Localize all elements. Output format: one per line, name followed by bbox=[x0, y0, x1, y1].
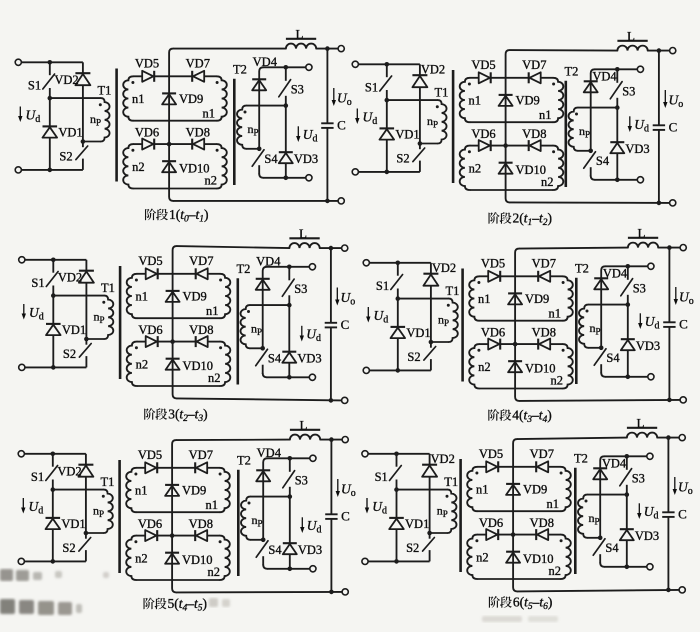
caption stage 1 (t0-t1) bbox=[145, 207, 208, 225]
switch S1 (circuit 3) bbox=[46, 260, 58, 296]
wire VD2 to node (circuit 4) bbox=[430, 286, 432, 342]
wire bottom rail (circuit 1) bbox=[173, 200, 338, 202]
wire VD2 to node (circuit 1) bbox=[82, 85, 84, 141]
label T1 (circuit 4) bbox=[446, 284, 460, 298]
label VD1 (circuit 6) bbox=[405, 517, 429, 531]
wire VD2 to node (circuit 3) bbox=[85, 283, 87, 339]
wire bottom input (circuit 2) bbox=[358, 171, 420, 173]
label nP T1 (circuit 2) bbox=[427, 114, 438, 130]
svg-text:S3: S3 bbox=[294, 282, 307, 296]
node S3 bottom junction (circuit 5) bbox=[288, 494, 293, 499]
wire n1 top-right (circuit 6) bbox=[548, 466, 560, 468]
svg-text:n1: n1 bbox=[546, 497, 559, 511]
diode VD5 (circuit 2) bbox=[479, 72, 491, 83]
wire VD3 branch upper (circuit 3) bbox=[288, 305, 290, 352]
svg-text:VD7: VD7 bbox=[189, 448, 213, 462]
input terminal + (circuit 4) bbox=[363, 260, 369, 266]
label VD2 (circuit 5) bbox=[57, 465, 81, 479]
svg-text:5(: 5( bbox=[168, 596, 180, 611]
label n1 right (circuit 3) bbox=[206, 304, 219, 318]
label Ud input (circuit 4) bbox=[374, 308, 389, 326]
wire C branch lower (circuit 6) bbox=[667, 517, 669, 590]
diode VD2 (circuit 1) bbox=[75, 73, 90, 85]
diode VD5 (circuit 3) bbox=[146, 268, 158, 279]
label VD6 (circuit 2) bbox=[471, 127, 495, 141]
node bottom-left junction (circuit 4) bbox=[396, 368, 401, 373]
label VD2 (circuit 3) bbox=[58, 271, 82, 285]
label VD9 (circuit 4) bbox=[525, 292, 549, 306]
node S4 top junction (circuit 3) bbox=[260, 346, 265, 351]
inductor L (circuit 1) bbox=[286, 39, 316, 49]
label S4 (circuit 1) bbox=[264, 152, 278, 166]
wire C branch lower (circuit 4) bbox=[668, 327, 670, 400]
label VD2 (circuit 1) bbox=[54, 73, 78, 87]
label VD8 (circuit 2) bbox=[522, 127, 546, 141]
svg-text:T1: T1 bbox=[101, 475, 115, 489]
terminal S3 top (circuit 2) bbox=[637, 66, 643, 72]
node top-left junction (circuit 4) bbox=[396, 261, 401, 266]
wire n2 top-mid (circuit 5) bbox=[157, 535, 195, 537]
svg-text:S3: S3 bbox=[622, 85, 635, 99]
label Ud input (circuit 6) bbox=[372, 499, 387, 517]
wire S3 top (circuit 5) bbox=[267, 457, 310, 459]
svg-text:n1: n1 bbox=[539, 108, 552, 122]
wire n1 bottom (circuit 4) bbox=[479, 320, 562, 322]
label n1 right (circuit 1) bbox=[202, 107, 215, 121]
node S3 top junction (circuit 3) bbox=[287, 265, 292, 270]
node C bottom junction (circuit 6) bbox=[666, 588, 671, 593]
caption stage 4 (t3-t4) bbox=[488, 408, 551, 426]
svg-text:VD4: VD4 bbox=[603, 267, 628, 281]
winding nP of T1 (circuit 3) bbox=[86, 296, 113, 339]
diode VD3 (circuit 1) bbox=[279, 152, 293, 163]
wire left bus mid (circuit 4) bbox=[397, 299, 399, 327]
label T2 (circuit 2) bbox=[565, 65, 579, 79]
input terminal + (circuit 1) bbox=[15, 59, 21, 65]
svg-text:VD7: VD7 bbox=[530, 447, 554, 461]
polarity dot n1 left (circuit 3) bbox=[135, 279, 138, 282]
node C top junction (circuit 1) bbox=[325, 46, 330, 51]
svg-text:S3: S3 bbox=[291, 83, 304, 97]
wire nP top (circuit 2) bbox=[578, 107, 618, 109]
wire n1 top-left (circuit 5) bbox=[136, 467, 145, 469]
wire left bus lower (circuit 6) bbox=[396, 529, 398, 561]
diode VD9 (circuit 4) bbox=[508, 293, 522, 304]
label S3 (circuit 2) bbox=[622, 85, 635, 99]
terminal S4 bottom (circuit 2) bbox=[637, 177, 643, 183]
svg-text:n1: n1 bbox=[205, 498, 218, 512]
terminal S4 bottom (circuit 1) bbox=[306, 175, 312, 181]
polarity dot n1 left (circuit 4) bbox=[477, 281, 480, 284]
wire bottom input (circuit 6) bbox=[368, 560, 430, 562]
wire n2 top-mid (circuit 3) bbox=[158, 341, 196, 343]
wire bottom rail (circuit 6) bbox=[517, 590, 679, 592]
svg-text:2(: 2( bbox=[513, 211, 525, 226]
label VD8 (circuit 3) bbox=[189, 323, 213, 337]
label VD10 (circuit 5) bbox=[182, 553, 213, 567]
winding n2 right (T2 primary) (circuit 5) bbox=[220, 536, 230, 580]
output terminal − (circuit 5) bbox=[342, 589, 348, 595]
wire VD4 branch (circuit 6) bbox=[600, 456, 604, 538]
node S3 bottom junction (circuit 1) bbox=[284, 103, 289, 108]
label VD2 (circuit 4) bbox=[432, 261, 456, 275]
caption stage 5 (t4-t5) bbox=[143, 596, 206, 614]
wire left bus lower (circuit 2) bbox=[386, 140, 388, 172]
label L (circuit 1) bbox=[296, 26, 304, 41]
wire VD2 to node (circuit 5) bbox=[85, 477, 87, 533]
wire n1 top-right (circuit 5) bbox=[207, 467, 219, 469]
svg-text:T2: T2 bbox=[574, 452, 588, 466]
label VD4 (circuit 5) bbox=[257, 446, 282, 460]
label L (circuit 5) bbox=[300, 417, 308, 432]
label VD5 (circuit 3) bbox=[138, 254, 162, 268]
label S1 (circuit 2) bbox=[365, 81, 378, 95]
polarity dot n1 right (circuit 4) bbox=[562, 281, 565, 284]
label VD3 (circuit 5) bbox=[298, 543, 322, 557]
label S1 (circuit 1) bbox=[28, 79, 41, 93]
svg-text:T2: T2 bbox=[565, 65, 579, 79]
svg-text:n2: n2 bbox=[476, 551, 489, 565]
svg-text:T2: T2 bbox=[233, 63, 247, 77]
svg-text:C: C bbox=[669, 119, 678, 134]
transformer T2 core (circuit 6) bbox=[574, 468, 577, 574]
wire VD3 branch upper (circuit 1) bbox=[285, 106, 287, 153]
svg-text:n1: n1 bbox=[132, 92, 145, 106]
label VD7 (circuit 3) bbox=[189, 254, 213, 268]
arrow Ud output (circuit 6) bbox=[637, 503, 641, 519]
svg-text:n2: n2 bbox=[208, 371, 221, 385]
transformer T2 core (circuit 4) bbox=[575, 278, 578, 384]
svg-text:VD2: VD2 bbox=[431, 452, 455, 466]
wire to T1 primary (circuit 1) bbox=[50, 97, 101, 99]
node S3 bottom junction (circuit 6) bbox=[625, 492, 630, 497]
node C top junction (circuit 4) bbox=[667, 245, 672, 250]
terminal S4 bottom (circuit 5) bbox=[310, 566, 316, 572]
arrow Uo (circuit 4) bbox=[674, 287, 678, 305]
label S4 (circuit 6) bbox=[605, 541, 619, 555]
label S2 (circuit 5) bbox=[62, 541, 75, 555]
wire bottom rail (circuit 4) bbox=[519, 400, 680, 401]
switch S3 (circuit 6) bbox=[620, 456, 632, 494]
label n2 left (circuit 6) bbox=[476, 551, 489, 565]
polarity dot nP T1 (circuit 5) bbox=[102, 495, 105, 498]
node C top junction (circuit 3) bbox=[329, 246, 334, 251]
wire left bus lower (circuit 5) bbox=[52, 529, 54, 561]
svg-text:n1: n1 bbox=[135, 484, 148, 498]
diode VD3 (circuit 5) bbox=[283, 543, 297, 554]
node bottom-left junction (circuit 2) bbox=[385, 170, 390, 175]
winding nP of T2 (circuit 2) bbox=[569, 108, 591, 151]
svg-text:C: C bbox=[337, 117, 346, 132]
label VD10 (circuit 6) bbox=[523, 552, 554, 566]
polarity dot n2 right (circuit 6) bbox=[560, 539, 563, 542]
node VD6-VD8 junction (circuit 5) bbox=[170, 533, 175, 538]
wire centre vertical (circuit 5) bbox=[172, 440, 176, 592]
svg-text:VD5: VD5 bbox=[471, 58, 495, 72]
node top-left junction (circuit 6) bbox=[394, 452, 399, 457]
diode VD5 (circuit 5) bbox=[145, 462, 157, 473]
label nP T2 (circuit 2) bbox=[579, 124, 590, 140]
switch S3 (circuit 5) bbox=[283, 458, 295, 496]
svg-text:n2: n2 bbox=[551, 374, 564, 388]
svg-text:n1: n1 bbox=[548, 307, 561, 321]
label Ud output (circuit 5) bbox=[307, 518, 322, 536]
label Uo (circuit 1) bbox=[337, 91, 352, 109]
wire VD4 branch (circuit 3) bbox=[263, 267, 267, 349]
output terminal − (circuit 3) bbox=[342, 397, 348, 403]
wire n1 bottom (circuit 5) bbox=[136, 511, 219, 513]
wire top input (circuit 4) bbox=[369, 262, 431, 264]
svg-text:VD1: VD1 bbox=[395, 127, 419, 141]
svg-text:T1: T1 bbox=[446, 284, 460, 298]
svg-text:n1: n1 bbox=[135, 290, 148, 304]
input terminal − (circuit 5) bbox=[18, 558, 24, 564]
transformer T2 core (circuit 1) bbox=[233, 79, 236, 185]
label S3 (circuit 3) bbox=[294, 282, 307, 296]
wire n2 bottom (circuit 6) bbox=[477, 578, 560, 580]
wire VD2 stub (circuit 6) bbox=[429, 454, 431, 465]
svg-text:n2: n2 bbox=[549, 564, 562, 578]
wire n1 top-mid (circuit 2) bbox=[491, 77, 529, 79]
svg-text:n2: n2 bbox=[469, 162, 482, 176]
wire VD3 branch upper (circuit 5) bbox=[289, 497, 291, 544]
svg-text:VD6: VD6 bbox=[471, 127, 495, 141]
wire n1 top-right (circuit 2) bbox=[541, 77, 553, 79]
label VD7 (circuit 4) bbox=[532, 257, 556, 271]
svg-text:L: L bbox=[637, 415, 645, 430]
label n1 left (circuit 3) bbox=[135, 290, 148, 304]
wire n2 top-mid (circuit 6) bbox=[498, 534, 536, 536]
label nP T1 (circuit 6) bbox=[437, 504, 448, 520]
winding nP of T2 (circuit 3) bbox=[240, 305, 262, 348]
input terminal − (circuit 4) bbox=[363, 367, 369, 373]
svg-text:S4: S4 bbox=[605, 541, 619, 555]
wire n2 top-right (circuit 1) bbox=[204, 143, 216, 145]
switch S2 (circuit 2) bbox=[413, 144, 425, 172]
switch S2 (circuit 1) bbox=[76, 142, 88, 170]
arrow Ud output (circuit 2) bbox=[628, 116, 632, 132]
switch S2 (circuit 6) bbox=[423, 533, 435, 561]
node mid-left junction (circuit 1) bbox=[48, 96, 53, 101]
node top-left junction (circuit 1) bbox=[48, 60, 53, 65]
label Uo (circuit 6) bbox=[678, 480, 693, 498]
winding n1 left (T1 secondary) (circuit 5) bbox=[126, 468, 136, 512]
capacitor C (circuit 1) bbox=[321, 123, 333, 128]
wire nP top (circuit 4) bbox=[588, 304, 628, 306]
svg-text:VD9: VD9 bbox=[523, 483, 547, 497]
wire VD3 branch lower (circuit 4) bbox=[627, 350, 629, 376]
diode VD7 (circuit 4) bbox=[538, 271, 550, 282]
node top-left junction (circuit 3) bbox=[51, 258, 56, 263]
polarity dot nP T2 (circuit 5) bbox=[248, 502, 251, 505]
svg-text:VD4: VD4 bbox=[592, 70, 617, 84]
svg-text:S4: S4 bbox=[596, 154, 610, 168]
node nP-bottom junction (circuit 5) bbox=[84, 531, 89, 536]
label nP T1 (circuit 4) bbox=[438, 313, 449, 329]
node bottom-right junction (circuit 2) bbox=[615, 178, 620, 183]
label S3 (circuit 6) bbox=[632, 472, 645, 486]
label Uo (circuit 3) bbox=[341, 290, 356, 308]
diode VD9 (circuit 5) bbox=[165, 485, 179, 496]
winding n1 left (T1 secondary) (circuit 3) bbox=[127, 274, 137, 318]
output terminal − (circuit 2) bbox=[670, 200, 676, 206]
arrow Ud output (circuit 4) bbox=[638, 313, 642, 329]
svg-text:S1: S1 bbox=[28, 79, 41, 93]
label T2 (circuit 6) bbox=[574, 452, 588, 466]
diode VD8 (circuit 5) bbox=[195, 530, 207, 541]
label S2 (circuit 3) bbox=[63, 347, 76, 361]
inductor L (circuit 5) bbox=[290, 430, 320, 440]
wire n1 top-mid (circuit 1) bbox=[154, 75, 192, 77]
label Ud output (circuit 3) bbox=[306, 327, 321, 345]
winding nP of T1 (circuit 6) bbox=[430, 490, 457, 533]
wire n2 top-left (circuit 3) bbox=[137, 341, 146, 343]
wire VD4 branch (circuit 1) bbox=[259, 67, 263, 149]
svg-text:VD9: VD9 bbox=[183, 290, 207, 304]
node bottom-right junction (circuit 3) bbox=[287, 375, 292, 380]
label VD10 (circuit 3) bbox=[183, 359, 214, 373]
node VD6-VD8 junction (circuit 6) bbox=[511, 532, 516, 537]
transformer T1 core (circuit 5) bbox=[118, 460, 121, 573]
input terminal + (circuit 3) bbox=[19, 257, 25, 263]
winding n2 left (T1 secondary) (circuit 3) bbox=[127, 342, 137, 386]
label S1 (circuit 3) bbox=[31, 276, 44, 290]
svg-text:VD1: VD1 bbox=[405, 517, 429, 531]
diode VD1 (circuit 1) bbox=[43, 126, 58, 137]
label n2 right (circuit 6) bbox=[549, 564, 562, 578]
wire n2 top-left (circuit 6) bbox=[477, 534, 486, 536]
wire bottom-right (circuit 5) bbox=[267, 568, 310, 570]
svg-text:VD1: VD1 bbox=[406, 326, 430, 340]
switch S1 (circuit 2) bbox=[380, 64, 392, 100]
svg-text:VD4: VD4 bbox=[602, 457, 627, 471]
diode VD10 (circuit 1) bbox=[162, 161, 176, 172]
wire n2 top-mid (circuit 2) bbox=[491, 145, 529, 147]
wire top input (circuit 2) bbox=[358, 63, 420, 65]
svg-text:VD5: VD5 bbox=[481, 257, 505, 271]
wire VD3 branch upper (circuit 2) bbox=[616, 108, 618, 143]
arrow Uo (circuit 5) bbox=[336, 479, 340, 497]
wire VD2 to node (circuit 6) bbox=[429, 477, 431, 533]
node S3 bottom junction (circuit 4) bbox=[626, 302, 631, 307]
label S4 (circuit 5) bbox=[268, 543, 282, 557]
label VD10 (circuit 1) bbox=[179, 162, 210, 176]
svg-text:T2: T2 bbox=[237, 262, 251, 276]
wire top rail (circuit 4) bbox=[519, 248, 628, 249]
svg-text:n1: n1 bbox=[206, 304, 219, 318]
wire VD3 branch lower (circuit 1) bbox=[285, 163, 287, 177]
label S2 (circuit 4) bbox=[407, 350, 420, 364]
polarity dot n1 left (circuit 5) bbox=[134, 473, 137, 476]
wire top input (circuit 1) bbox=[21, 61, 83, 63]
terminal S4 bottom (circuit 3) bbox=[309, 374, 315, 380]
wire top rail (circuit 3) bbox=[177, 246, 290, 248]
label L (circuit 2) bbox=[627, 28, 635, 43]
label S4 (circuit 2) bbox=[596, 154, 610, 168]
output terminal − (circuit 1) bbox=[338, 198, 344, 204]
label n1 right (circuit 4) bbox=[548, 307, 561, 321]
bleed-through smudge below caption 6 bbox=[482, 616, 558, 622]
arrow Ud output (circuit 5) bbox=[300, 517, 304, 533]
winding nP of T2 (circuit 4) bbox=[579, 305, 601, 348]
node mid-left junction (circuit 4) bbox=[396, 296, 401, 301]
polarity dot n1 left (circuit 1) bbox=[131, 81, 134, 84]
node C top junction (circuit 5) bbox=[329, 437, 334, 442]
bleed-through smudge bottom-left 2 bbox=[0, 599, 82, 615]
label n2 right (circuit 5) bbox=[208, 565, 221, 579]
wire VD4 branch (circuit 4) bbox=[601, 266, 605, 348]
svg-text:VD9: VD9 bbox=[179, 92, 203, 106]
node top-left junction (circuit 2) bbox=[385, 62, 390, 67]
switch S4 (circuit 5) bbox=[256, 540, 268, 569]
wire left bus lower (circuit 1) bbox=[49, 138, 51, 170]
polarity dot nP T1 (circuit 2) bbox=[436, 105, 439, 108]
label VD9 (circuit 6) bbox=[523, 483, 547, 497]
svg-text:VD1: VD1 bbox=[58, 125, 82, 139]
diode VD8 (circuit 4) bbox=[538, 339, 550, 350]
output terminal − (circuit 4) bbox=[680, 397, 686, 403]
input terminal − (circuit 3) bbox=[19, 364, 25, 370]
caption stage 3 (t2-t3) bbox=[144, 407, 207, 425]
svg-text:S3: S3 bbox=[632, 472, 645, 486]
wire S3 top (circuit 1) bbox=[263, 66, 306, 68]
label n1 left (circuit 4) bbox=[478, 292, 491, 306]
svg-text:T2: T2 bbox=[575, 262, 589, 276]
terminal S4 bottom (circuit 4) bbox=[648, 374, 654, 380]
diode VD3 (circuit 3) bbox=[282, 352, 296, 363]
label VD7 (circuit 1) bbox=[186, 57, 210, 71]
wire bottom rail (circuit 2) bbox=[510, 201, 670, 204]
label VD3 (circuit 3) bbox=[297, 351, 321, 365]
capacitor C (circuit 3) bbox=[325, 323, 337, 328]
winding n1 left (T1 secondary) (circuit 4) bbox=[469, 276, 479, 320]
polarity dot n2 right (circuit 4) bbox=[562, 349, 565, 352]
diode VD1 (circuit 2) bbox=[380, 128, 395, 139]
polarity dot n2 right (circuit 3) bbox=[219, 346, 222, 349]
diode VD4 (circuit 5) bbox=[256, 470, 270, 481]
wire nP top (circuit 5) bbox=[250, 496, 290, 498]
wire n2 top-left (circuit 1) bbox=[133, 143, 142, 145]
diode VD4 (circuit 3) bbox=[256, 279, 270, 290]
winding n2 right (T2 primary) (circuit 3) bbox=[220, 342, 230, 386]
wire centre vertical (circuit 6) bbox=[513, 439, 517, 591]
label VD10 (circuit 2) bbox=[516, 163, 547, 177]
wire to T1 primary (circuit 5) bbox=[53, 489, 104, 491]
svg-text:S2: S2 bbox=[406, 541, 419, 555]
wire VD3 branch lower (circuit 2) bbox=[616, 153, 618, 179]
output terminal + (circuit 3) bbox=[342, 245, 348, 251]
label Ud input (circuit 2) bbox=[363, 110, 378, 128]
svg-text:n1: n1 bbox=[476, 483, 489, 497]
polarity dot nP T1 (circuit 3) bbox=[102, 301, 105, 304]
label C (circuit 4) bbox=[679, 316, 688, 331]
diode VD6 (circuit 2) bbox=[479, 140, 491, 151]
transformer T2 core (circuit 5) bbox=[237, 470, 240, 576]
wire top rail (circuit 2) bbox=[510, 49, 618, 52]
polarity dot nP T2 (circuit 4) bbox=[586, 310, 589, 313]
svg-text:VD8: VD8 bbox=[532, 325, 556, 339]
label T2 (circuit 4) bbox=[575, 262, 589, 276]
svg-text:S2: S2 bbox=[59, 150, 72, 164]
diode VD7 (circuit 6) bbox=[536, 461, 548, 472]
wire n2 top-right (circuit 2) bbox=[541, 145, 553, 147]
wire bottom rail (circuit 5) bbox=[176, 591, 342, 594]
terminal S3 top (circuit 4) bbox=[648, 263, 654, 269]
label VD5 (circuit 5) bbox=[138, 448, 162, 462]
svg-text:VD5: VD5 bbox=[479, 447, 503, 461]
svg-text:S2: S2 bbox=[407, 350, 420, 364]
inductor L (circuit 3) bbox=[289, 238, 319, 248]
